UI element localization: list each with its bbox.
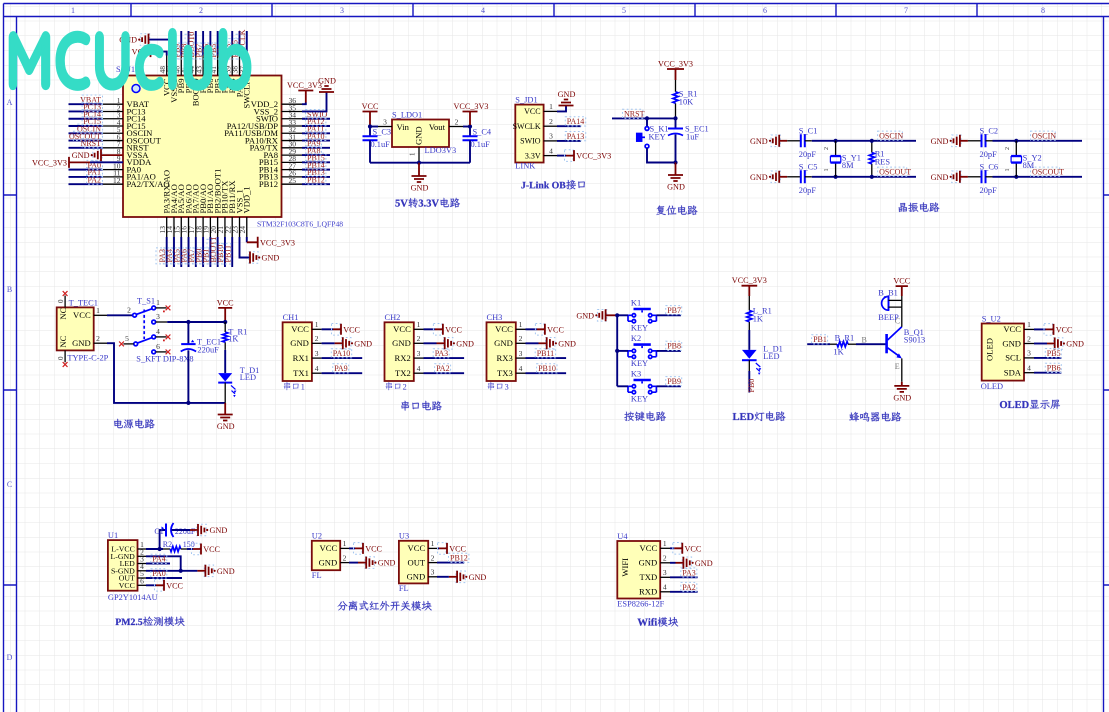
svg-text:7: 7 xyxy=(904,6,908,15)
svg-text:RX1: RX1 xyxy=(293,353,309,363)
svg-text:NRST: NRST xyxy=(624,110,645,119)
svg-text:PA3: PA3 xyxy=(682,568,696,577)
title key circuit xyxy=(624,411,666,421)
net label PC15 xyxy=(82,117,102,126)
svg-text:3: 3 xyxy=(340,6,344,15)
pin 30 PA9/TX xyxy=(282,147,303,149)
svg-text:6: 6 xyxy=(156,342,160,351)
net label PA9 xyxy=(333,364,349,373)
power port VCC (PM2.5 R2) xyxy=(192,543,201,555)
wire net BOOT0 xyxy=(195,31,197,56)
wire OSCIN xyxy=(993,140,1083,142)
pin 19 PB1/AO xyxy=(209,217,211,237)
svg-text:VCC: VCC xyxy=(408,543,426,553)
svg-text:LED: LED xyxy=(240,373,256,382)
svg-text:OSCIN: OSCIN xyxy=(1032,132,1056,141)
power port VCC_3V3 at VDDA xyxy=(68,157,70,168)
wire net PA4 xyxy=(173,237,175,267)
wire SWIO xyxy=(557,140,581,142)
wire net PA5 xyxy=(180,237,182,267)
wire net OSCIN xyxy=(69,132,104,134)
wire VCC_3V3 to C4 xyxy=(469,125,471,136)
svg-text:S9013: S9013 xyxy=(904,336,925,345)
svg-text:B: B xyxy=(862,336,867,345)
wire net PB14 xyxy=(302,169,330,171)
wire key ground bus xyxy=(616,315,618,386)
svg-text:1: 1 xyxy=(71,6,75,15)
net label PB10 xyxy=(214,244,223,264)
svg-text:PA2: PA2 xyxy=(682,583,696,592)
svg-text:VCC: VCC xyxy=(640,543,658,553)
svg-text:VCC_3V3: VCC_3V3 xyxy=(576,152,611,161)
pin 4 S-GND xyxy=(138,570,147,572)
wire pin 9 VDDA to VCC_3V3 xyxy=(69,161,90,163)
power port VCC (CH1) xyxy=(332,324,341,336)
wire net PA9 xyxy=(302,147,330,149)
pin 6 OSCOUT xyxy=(103,140,123,142)
pin 38 PA15 xyxy=(239,56,241,76)
wire GND xyxy=(322,342,335,344)
title wifi module xyxy=(638,617,679,627)
ground GND (keys) xyxy=(597,310,606,322)
net label VBAT xyxy=(82,95,102,104)
net label OSCIN xyxy=(1031,131,1056,140)
svg-text:GND: GND xyxy=(558,339,576,348)
wire U3 GND xyxy=(437,576,449,578)
wire net PB4 xyxy=(224,31,226,56)
svg-text:150: 150 xyxy=(183,540,195,549)
net label PA11 xyxy=(306,124,326,133)
title infrared switch module xyxy=(338,601,432,611)
net label NRST xyxy=(82,139,102,148)
wire net PA12 xyxy=(302,125,330,127)
svg-text:OLED: OLED xyxy=(981,382,1003,391)
svg-text:1: 1 xyxy=(1027,320,1031,329)
svg-text:A: A xyxy=(7,98,13,107)
wire OSCOUT xyxy=(993,176,1083,178)
wire L-VCC xyxy=(146,548,163,550)
svg-text:Vout: Vout xyxy=(429,122,446,132)
svg-text:PA14: PA14 xyxy=(567,117,585,126)
wire VCC to Vin xyxy=(370,126,378,128)
svg-text:VCC: VCC xyxy=(445,325,462,334)
svg-text:PA13: PA13 xyxy=(567,132,585,141)
node VCC junction xyxy=(223,320,227,324)
module U4 ESP8266 body xyxy=(617,541,660,599)
ground GND (C1) xyxy=(197,524,206,536)
node LDO output junction xyxy=(468,124,472,128)
pin 1 VCC (U3) xyxy=(428,547,437,549)
net label PB9 xyxy=(666,377,682,386)
power port VCC_3V3 (J-Link) xyxy=(565,150,574,162)
net label PB11 xyxy=(222,244,231,264)
pin 1 VCC xyxy=(516,328,526,330)
svg-text:OUT: OUT xyxy=(408,557,426,567)
pin 1 GND xyxy=(418,147,420,163)
svg-text:VCC: VCC xyxy=(320,543,338,553)
pin 2 GND xyxy=(516,342,526,344)
net label PA7 xyxy=(185,248,194,264)
net label PB10 xyxy=(537,364,557,373)
svg-text:1: 1 xyxy=(343,539,347,548)
svg-text:TX1: TX1 xyxy=(293,368,309,378)
net label NRST xyxy=(623,109,643,118)
pin 36 VDD_2 xyxy=(282,103,303,105)
wire K3 to PB9 xyxy=(656,385,681,387)
pin 26 PB13 xyxy=(282,176,303,178)
pin 1 VCC xyxy=(312,328,322,330)
net label PA9 xyxy=(306,139,322,148)
resistor T_R1 1K xyxy=(224,322,226,350)
svg-text:1: 1 xyxy=(431,539,435,548)
wire NRST xyxy=(612,117,676,119)
pin 1 VCC xyxy=(94,314,107,316)
wire C4 to gnd rail xyxy=(469,140,471,162)
wire OSCIN xyxy=(812,140,916,142)
wire GND xyxy=(526,342,539,344)
svg-text:2: 2 xyxy=(1027,334,1031,343)
wire bus to K2 xyxy=(617,350,628,352)
wire collector xyxy=(901,307,903,327)
wire net PC13 xyxy=(69,110,104,112)
wire L-GND xyxy=(146,556,181,571)
svg-text:6: 6 xyxy=(763,6,767,15)
net label PB0 xyxy=(192,248,201,264)
svg-text:KEY: KEY xyxy=(631,323,648,332)
svg-text:TXD: TXD xyxy=(640,572,658,582)
wire net OSCOUT xyxy=(69,140,104,142)
node ground junction xyxy=(673,160,677,164)
svg-text:3: 3 xyxy=(156,312,160,321)
svg-text:VCC: VCC xyxy=(119,581,135,590)
svg-text:U4: U4 xyxy=(617,532,628,541)
svg-text:BEEP: BEEP xyxy=(878,313,899,322)
regulator S_LDO1 LDO3V3 body xyxy=(392,120,449,148)
buzzer B_B1 BEEP xyxy=(882,296,889,310)
pin 20 PB2/BOOT1 xyxy=(217,217,219,237)
svg-text:GND: GND xyxy=(639,558,658,568)
svg-text:4: 4 xyxy=(156,327,160,336)
pin 2 OUT (U3) xyxy=(428,562,437,564)
pin 21 PB10/TX xyxy=(224,217,226,237)
svg-text:S_C1: S_C1 xyxy=(799,127,818,136)
wire net PB15 xyxy=(302,161,330,163)
svg-text:3: 3 xyxy=(417,349,421,358)
node bus K1 xyxy=(615,313,619,317)
wire cap to rail xyxy=(187,350,189,403)
pin 3 PC14 xyxy=(103,118,123,120)
svg-text:20pF: 20pF xyxy=(799,150,817,159)
svg-text:0: 0 xyxy=(57,299,65,303)
pin 5 OUT xyxy=(138,577,147,579)
svg-text:PA4: PA4 xyxy=(152,555,166,564)
ground GND (wifi) xyxy=(682,557,691,569)
svg-text:1K: 1K xyxy=(228,335,238,344)
svg-text:5: 5 xyxy=(125,334,129,343)
svg-text:VCC: VCC xyxy=(166,581,183,590)
pin 1 VBAT xyxy=(103,103,123,105)
svg-text:KEY: KEY xyxy=(631,359,648,368)
wire net PB9 xyxy=(180,31,182,56)
svg-text:3: 3 xyxy=(519,349,523,358)
pin 34 SWIO xyxy=(282,118,303,120)
pin 23 VSS_1 xyxy=(239,217,241,237)
label serial port 1 xyxy=(284,382,299,390)
capacitor C1 220uF xyxy=(160,530,166,549)
svg-text:PB0: PB0 xyxy=(747,379,756,393)
pin 11 PA1/AO xyxy=(103,176,123,178)
wire PB11 xyxy=(526,357,567,359)
svg-text:1: 1 xyxy=(1005,169,1011,172)
net label PA3 xyxy=(433,349,449,358)
pin 0 shield bottom xyxy=(64,350,66,362)
svg-text:GND: GND xyxy=(456,339,474,348)
ground GND at VSS_3 xyxy=(140,34,149,46)
net label SWIO xyxy=(306,110,326,119)
svg-text:KEY: KEY xyxy=(649,133,666,142)
IC S_U1 STM32F103C8T6 MCU body xyxy=(123,76,282,218)
pin 4 xyxy=(156,336,167,338)
node NRST junction xyxy=(673,116,677,120)
power port VCC (wifi) xyxy=(673,543,682,555)
net label PA8 xyxy=(306,146,322,155)
svg-text:PA0: PA0 xyxy=(152,569,166,578)
power port VCC (LDO input) xyxy=(363,112,378,126)
power port VCC (main) xyxy=(218,308,232,320)
svg-text:VCC_3V3: VCC_3V3 xyxy=(732,276,767,285)
wire key to ground rail xyxy=(647,148,676,162)
svg-text:K1: K1 xyxy=(631,299,641,308)
wire C3 to gnd rail xyxy=(369,140,371,162)
pin 37 SWCLK xyxy=(246,56,248,76)
svg-text:3: 3 xyxy=(315,349,319,358)
pin 3 SCL xyxy=(1024,357,1034,359)
wire VCC xyxy=(424,328,435,330)
wire net PB7 xyxy=(202,31,204,56)
net label PB7 xyxy=(192,43,201,59)
wire net BOOT1 xyxy=(217,237,219,267)
svg-text:GND: GND xyxy=(319,557,338,567)
power port VCC_3V3 (reset) xyxy=(667,69,684,80)
svg-text:FL: FL xyxy=(399,584,409,593)
wire VSS_2 to ground xyxy=(302,92,327,111)
net label PB13 xyxy=(306,168,326,177)
svg-text:3: 3 xyxy=(505,382,509,391)
svg-text:TX3: TX3 xyxy=(497,368,513,378)
LED T_D1 xyxy=(224,350,226,373)
wire net PB13 xyxy=(302,176,330,178)
pin 7 NRST xyxy=(103,147,123,149)
wire net PB3 xyxy=(231,31,233,56)
pin 2 SWCLK xyxy=(544,125,557,127)
svg-text:B: B xyxy=(7,285,12,294)
pin 3 LED xyxy=(138,563,147,565)
svg-text:12: 12 xyxy=(113,176,121,185)
title LED circuit xyxy=(733,411,786,421)
ground GND at VSS_1 xyxy=(249,252,258,264)
svg-text:SCL: SCL xyxy=(1005,353,1021,363)
net label PB8 xyxy=(178,43,187,59)
wire VCC pin to ground xyxy=(557,106,566,112)
svg-text:OSCOUT: OSCOUT xyxy=(879,168,911,177)
svg-text:3: 3 xyxy=(1027,349,1031,358)
svg-text:S_JD1: S_JD1 xyxy=(515,95,537,104)
svg-text:PB11: PB11 xyxy=(223,245,232,263)
net label PA14 xyxy=(565,117,585,126)
svg-text:K2: K2 xyxy=(631,334,641,343)
svg-text:2: 2 xyxy=(431,553,435,562)
wire SWCLK xyxy=(557,125,581,127)
wire net PA7 xyxy=(195,237,197,267)
svg-text:LDO3V3: LDO3V3 xyxy=(425,146,457,155)
ground xyxy=(412,176,427,182)
svg-text:GND: GND xyxy=(667,183,685,192)
svg-text:2: 2 xyxy=(403,382,407,391)
ground GND (reset) xyxy=(675,163,677,176)
net label PB12 xyxy=(306,175,326,184)
pin 3 RX2 xyxy=(414,357,424,359)
pin 1 VCC (U2) xyxy=(340,547,349,549)
svg-text:1uF: 1uF xyxy=(686,133,699,142)
svg-text:GND: GND xyxy=(414,126,424,145)
label serial port 2 xyxy=(386,382,401,390)
resistor S_R1 10K xyxy=(675,80,677,118)
net label PA6 xyxy=(178,248,187,264)
sensor U2 FL body xyxy=(312,541,340,570)
svg-text:SWCLK: SWCLK xyxy=(513,122,541,131)
wire C to ground rail xyxy=(675,135,677,163)
wire pin 8 VSSA to ground xyxy=(101,154,123,156)
svg-text:0: 0 xyxy=(57,356,65,360)
wire U4 VCC xyxy=(670,547,674,549)
power port VCC (CH3) xyxy=(535,324,544,336)
svg-text:2: 2 xyxy=(127,305,131,314)
wire VCC xyxy=(146,584,156,586)
pin 17 PA7/AO xyxy=(195,217,197,237)
svg-text:VCC: VCC xyxy=(685,544,702,553)
net label PB4 xyxy=(214,43,223,59)
svg-text:S_C5: S_C5 xyxy=(799,163,818,172)
net label OSCOUT xyxy=(878,167,907,176)
wire U3 OUT net PB12 xyxy=(437,562,464,564)
pin 32 PA11/USB/DM xyxy=(282,132,303,134)
svg-text:TX2: TX2 xyxy=(395,368,411,378)
pin 45 PB8 xyxy=(188,56,190,76)
wire net NRST xyxy=(69,147,104,149)
pin 48 VCC xyxy=(166,56,168,76)
sensor U3 FL body xyxy=(399,541,428,584)
wire Vout to VCC_3V3 xyxy=(463,126,470,128)
ground GND (CH3) xyxy=(546,338,555,350)
wire GND xyxy=(424,342,437,344)
wire S-GND xyxy=(146,570,197,572)
pin 25 PB12 xyxy=(282,183,303,185)
pin 4 3.3V xyxy=(544,155,557,157)
svg-text:20pF: 20pF xyxy=(799,186,817,195)
svg-text:VCC_3V3: VCC_3V3 xyxy=(287,81,322,90)
capacitor S_C3 0.1uF xyxy=(363,136,378,140)
wire OUT net PA0 xyxy=(146,577,182,579)
wire net PB6 xyxy=(209,31,211,56)
svg-text:2: 2 xyxy=(455,117,459,126)
net label PB12 xyxy=(449,553,469,562)
power port VCC (CH2) xyxy=(433,324,442,336)
net label BOOT1 xyxy=(207,239,216,264)
wire VSS_3 to ground xyxy=(149,40,174,56)
svg-text:GND: GND xyxy=(72,338,91,348)
net label PA4 xyxy=(163,248,172,264)
svg-text:25: 25 xyxy=(289,176,297,185)
wire net PA15 xyxy=(239,31,241,56)
svg-text:U3: U3 xyxy=(399,532,409,541)
svg-text:1: 1 xyxy=(417,320,421,329)
svg-text:LED: LED xyxy=(763,352,779,361)
pin 40 PB4 xyxy=(224,56,226,76)
wire net PA1 xyxy=(69,176,104,178)
power port VCC (OLED) xyxy=(1044,324,1053,336)
pin 33 PA12/USB/DP xyxy=(282,125,303,127)
svg-text:VCC: VCC xyxy=(893,277,910,286)
svg-text:SWIO: SWIO xyxy=(520,137,541,146)
wire net PA10 xyxy=(302,140,330,142)
svg-text:2: 2 xyxy=(343,553,347,562)
title buzzer circuit xyxy=(849,412,901,422)
wire net PA8 xyxy=(302,154,330,156)
wire GND rail xyxy=(107,343,225,403)
pin 12 PA2/TX/AO xyxy=(103,183,123,185)
svg-text:VCC_3V3: VCC_3V3 xyxy=(453,102,488,111)
node S-GND junction xyxy=(179,569,183,573)
svg-text:T_TEC1: T_TEC1 xyxy=(69,298,98,307)
pin 3 RX3 xyxy=(516,357,526,359)
wire VCC xyxy=(1034,328,1046,330)
net label PB8 xyxy=(666,341,682,350)
title crystal circuit xyxy=(899,202,940,212)
wire VDD_2 to VCC_3V3 xyxy=(302,103,306,105)
svg-text:VCC_3V3: VCC_3V3 xyxy=(260,238,295,247)
svg-text:1K: 1K xyxy=(833,348,843,357)
svg-text:2: 2 xyxy=(519,334,523,343)
svg-text:1: 1 xyxy=(519,320,523,329)
node cap junction xyxy=(186,320,190,324)
pin 42 PB6 xyxy=(209,56,211,76)
power port VCC (PM2.5) xyxy=(155,580,164,592)
svg-text:WIFI: WIFI xyxy=(620,558,630,577)
svg-text:VCC: VCC xyxy=(203,545,220,554)
wire net PB10 xyxy=(224,237,226,267)
svg-text:VCC_3V3: VCC_3V3 xyxy=(658,60,693,69)
svg-text:VCC: VCC xyxy=(524,107,540,116)
ground GND (CH2) xyxy=(444,338,453,350)
svg-text:GND: GND xyxy=(931,137,949,146)
wire net PB0 xyxy=(202,237,204,267)
wire net PB12 xyxy=(302,183,330,185)
svg-text:GND: GND xyxy=(262,254,280,263)
ground GND (CH1) xyxy=(342,338,351,350)
svg-text:GND: GND xyxy=(1066,340,1084,349)
ground GND (buzzer) xyxy=(894,386,909,392)
crystal S_Y1 8M xyxy=(835,141,837,177)
ground GND (OLED) xyxy=(1054,338,1063,350)
svg-text:OLED: OLED xyxy=(985,338,995,361)
ground GND (LDO) xyxy=(418,163,420,176)
wire LED net PA4 xyxy=(146,563,170,565)
wire net SWIO xyxy=(302,118,330,120)
svg-text:ESP8266-12F: ESP8266-12F xyxy=(617,600,664,609)
pin 4 TX1 xyxy=(312,372,322,374)
power port VCC (buzzer) xyxy=(896,286,908,296)
pin 4 TX3 xyxy=(516,372,526,374)
